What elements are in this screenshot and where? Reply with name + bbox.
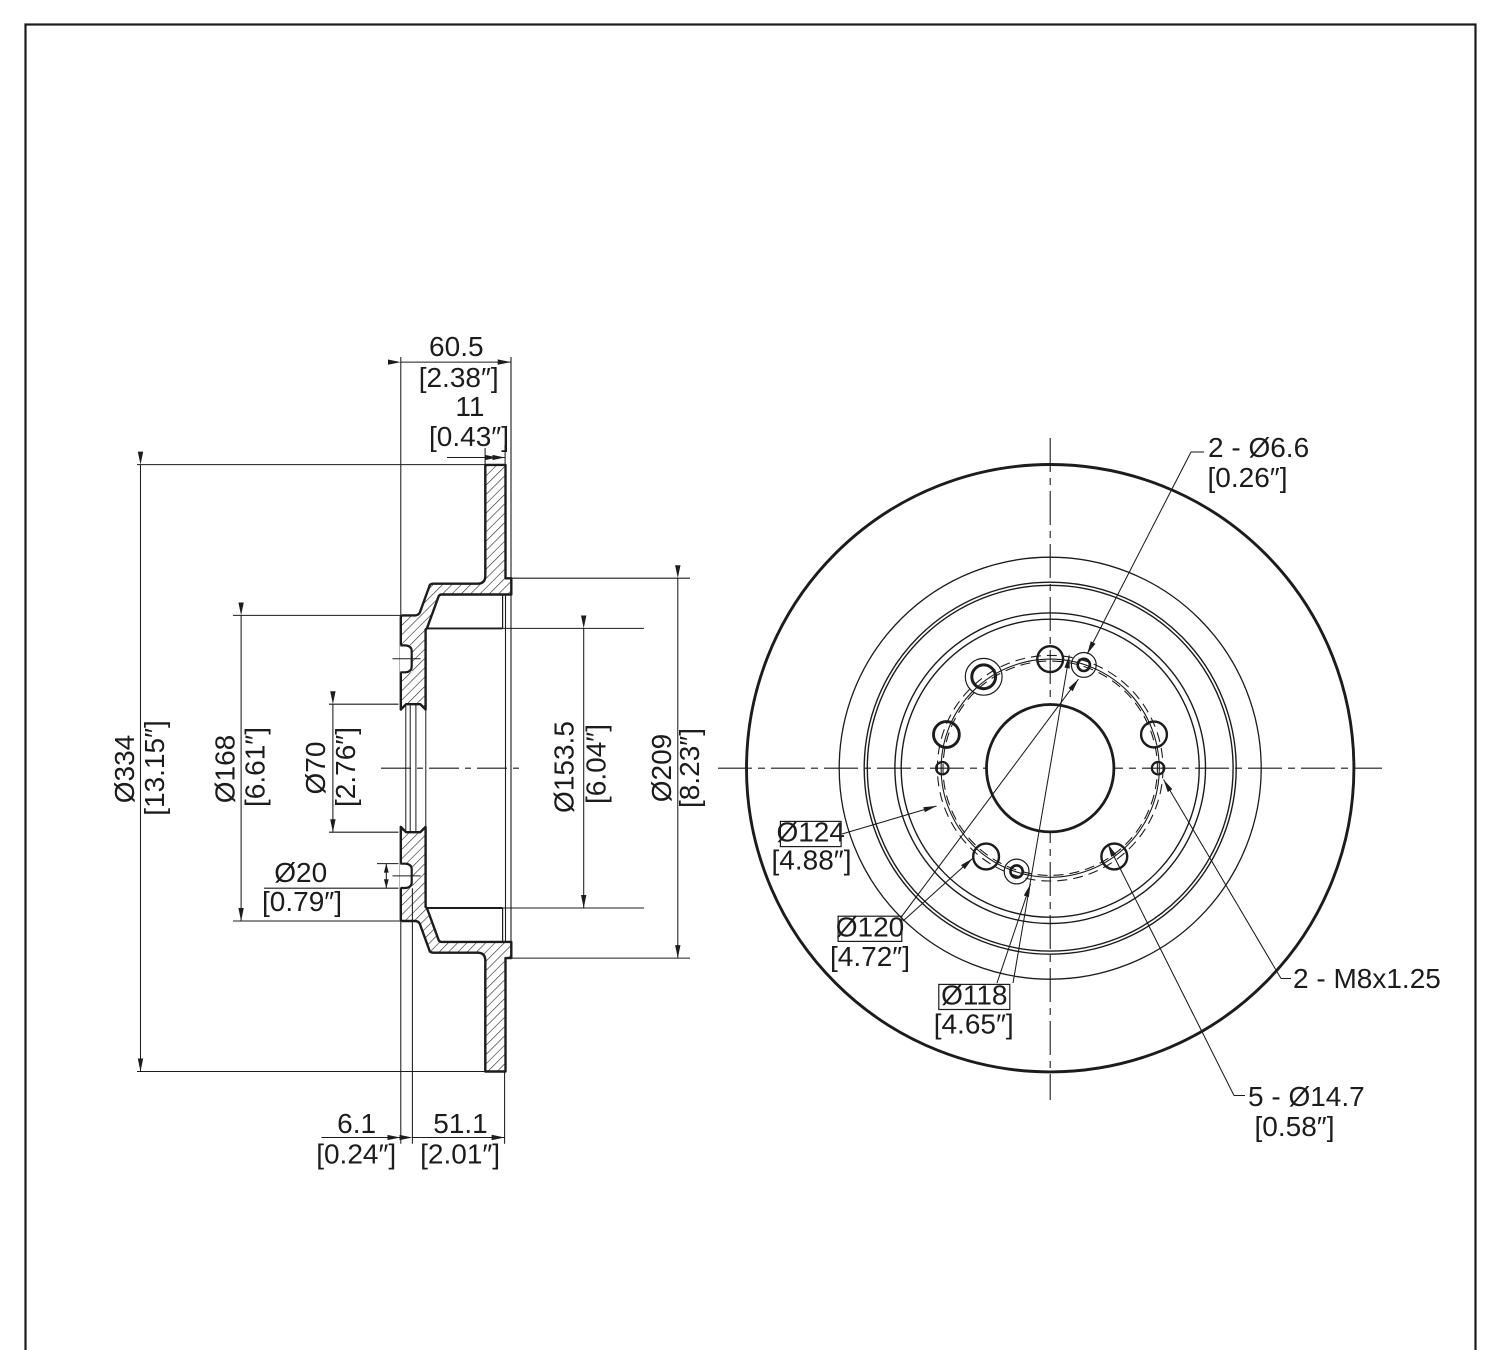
background edges seen through centre bore — [405, 706, 407, 830]
countersunk screw hole 72deg — [1071, 653, 1096, 678]
drum inner surface lines (O153.5) — [427, 627, 503, 629]
hat step circles (O209 region) — [864, 582, 1236, 954]
svg-text:2 - Ø6.6: 2 - Ø6.6 — [1208, 432, 1309, 463]
svg-text:[2.38″]: [2.38″] — [419, 362, 499, 393]
centre lines — [718, 767, 1382, 769]
lug hole -54deg — [1101, 844, 1127, 870]
outer circle O334 — [746, 465, 1353, 1072]
label ticks — [1191, 451, 1204, 453]
small arrowheads: O20 dim — [384, 864, 389, 873]
svg-text:11: 11 — [455, 391, 484, 422]
svg-text:Ø168: Ø168 — [210, 735, 241, 804]
bolt hole (section cutout, lower) — [393, 864, 421, 888]
lug hole 90deg — [1037, 646, 1063, 672]
lug hole 18deg — [1141, 722, 1167, 748]
centre bore O70 — [986, 705, 1113, 832]
svg-text:[4.88″]: [4.88″] — [772, 845, 852, 876]
friction face edge through cavity — [505, 595, 507, 942]
centre line left view — [381, 767, 524, 769]
small arrowheads: 11 dim — [493, 455, 505, 460]
svg-text:[2.01″]: [2.01″] — [420, 1139, 500, 1170]
hub flange circles (O168 region) — [895, 613, 1206, 924]
svg-text:[0.26″]: [0.26″] — [1208, 462, 1288, 493]
svg-text:[6.61″]: [6.61″] — [240, 727, 271, 807]
leader lines — [842, 452, 1281, 1096]
svg-text:[0.43″]: [0.43″] — [429, 421, 509, 452]
svg-text:60.5: 60.5 — [429, 331, 484, 362]
M8 hole 0deg — [1152, 762, 1164, 774]
label boxes — [780, 821, 1009, 1009]
svg-text:[0.58″]: [0.58″] — [1255, 1111, 1335, 1142]
svg-text:[13.15″]: [13.15″] — [139, 720, 170, 816]
labels — [772, 432, 1441, 1142]
svg-text:2 - M8x1.25: 2 - M8x1.25 — [1293, 963, 1441, 994]
spotface + lug hole at 126deg — [965, 658, 1002, 695]
disc cross-section upper half (hatched) — [401, 465, 512, 710]
svg-text:6.1: 6.1 — [337, 1108, 376, 1139]
svg-text:[4.72″]: [4.72″] — [830, 941, 910, 972]
svg-text:[0.79″]: [0.79″] — [262, 886, 342, 917]
svg-text:Ø153.5: Ø153.5 — [549, 721, 580, 813]
svg-text:[8.23″]: [8.23″] — [674, 728, 705, 808]
lug hole -126deg — [973, 844, 999, 870]
svg-text:Ø70: Ø70 — [300, 742, 331, 795]
dimension lines with arrows — [141, 362, 678, 1137]
dimension texts — [109, 331, 705, 1170]
bolt circle O120 (solid) — [941, 659, 1159, 877]
friction band inner edge — [839, 557, 1261, 979]
countersunk screw hole -108deg — [1004, 859, 1029, 884]
svg-text:Ø209: Ø209 — [646, 734, 677, 803]
M8 hole 180deg — [936, 762, 948, 774]
drum lip edges — [502, 595, 504, 629]
svg-text:Ø20: Ø20 — [274, 857, 327, 888]
bolt circle O124 (dashed) — [937, 655, 1163, 881]
svg-text:[2.76″]: [2.76″] — [330, 727, 361, 807]
drum end face edge / 60.5 extension line — [510, 357, 512, 942]
extension lines — [137, 357, 690, 1144]
svg-text:Ø334: Ø334 — [109, 735, 140, 804]
svg-text:[6.04″]: [6.04″] — [581, 724, 612, 804]
svg-text:51.1: 51.1 — [433, 1108, 488, 1139]
bolt circle O118 (dashed) — [943, 661, 1157, 875]
svg-text:5 - Ø14.7: 5 - Ø14.7 — [1248, 1081, 1365, 1112]
svg-text:[0.24″]: [0.24″] — [316, 1139, 396, 1170]
lug hole 162deg — [934, 722, 960, 748]
bolt hole (section cutout, upper) — [393, 645, 421, 672]
svg-text:[4.65″]: [4.65″] — [934, 1009, 1014, 1040]
disc cross-section lower half (hatched) — [401, 827, 512, 1072]
